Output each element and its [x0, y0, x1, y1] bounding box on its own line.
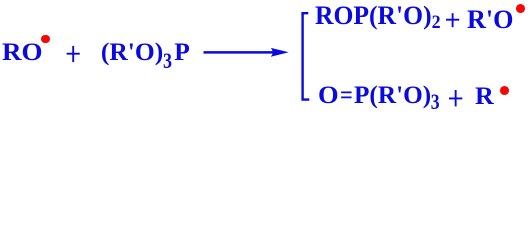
plus sign bottom [449, 90, 465, 108]
product O= [318, 83, 339, 108]
radical dot on RO [41, 35, 50, 44]
plus sign left [66, 45, 82, 63]
left square bracket [298, 10, 312, 103]
product ROP(R'O)2 [315, 2, 441, 32]
reactant RO [2, 39, 43, 65]
product R [475, 84, 494, 109]
reaction arrow [203, 45, 293, 61]
reactant (R'O)3P [101, 39, 190, 66]
plus sign top [446, 13, 462, 29]
equals sign [340, 83, 353, 108]
radical dot on R [500, 86, 509, 95]
radical dot on R'O [516, 4, 525, 13]
product R'O [467, 6, 513, 32]
product P(R'O)3 [354, 83, 443, 108]
